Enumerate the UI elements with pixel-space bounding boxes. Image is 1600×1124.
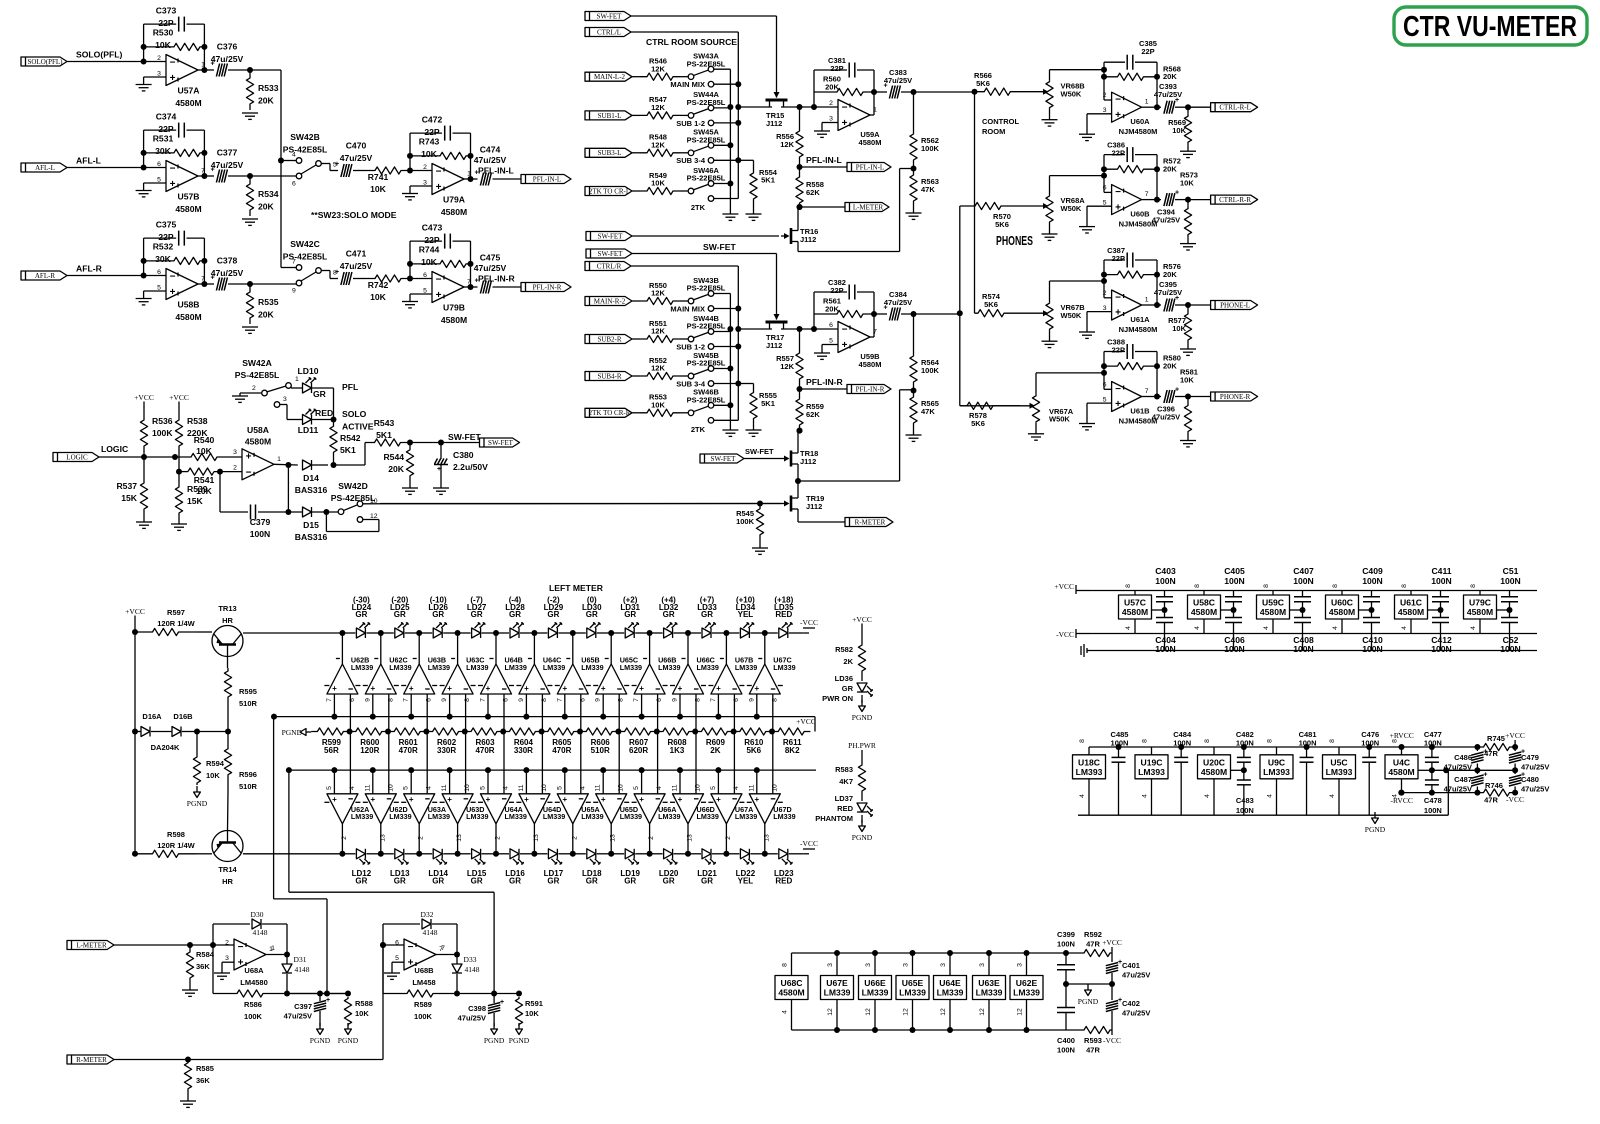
svg-text:6: 6	[1103, 185, 1107, 192]
svg-text:20K: 20K	[1163, 165, 1177, 174]
resistor R746	[1477, 781, 1515, 805]
svg-text:+: +	[370, 684, 375, 693]
PGND	[852, 820, 873, 842]
ground	[1180, 244, 1196, 250]
svg-text:U65E: U65E	[902, 978, 924, 988]
resistor R593	[1082, 1026, 1112, 1054]
svg-text:6: 6	[656, 698, 663, 702]
svg-text:RED: RED	[837, 804, 853, 813]
svg-text:SOLO(PFL): SOLO(PFL)	[76, 50, 122, 60]
resistor R585	[184, 1060, 214, 1102]
svg-text:R-METER: R-METER	[855, 518, 886, 526]
power -RVCC	[1391, 796, 1413, 805]
svg-text:LM339: LM339	[1013, 988, 1040, 998]
power +VCC	[1102, 938, 1122, 953]
svg-text:4580M: 4580M	[245, 437, 271, 447]
comparator U66C	[670, 633, 719, 793]
svg-text:+RVCC: +RVCC	[1390, 731, 1414, 740]
svg-text:C472: C472	[422, 115, 443, 125]
svg-text:SW-FET: SW-FET	[597, 12, 623, 20]
svg-text:GR: GR	[394, 876, 406, 885]
svg-text:PFL-IN-R: PFL-IN-R	[806, 377, 844, 387]
switch SW42C	[281, 239, 327, 295]
LED LD23	[762, 849, 803, 886]
svg-text:8: 8	[541, 698, 548, 702]
resistor R533	[246, 72, 278, 110]
svg-text:9: 9	[441, 698, 448, 702]
svg-text:−: −	[1115, 293, 1121, 304]
svg-text:U61B: U61B	[1130, 407, 1150, 416]
svg-text:3: 3	[1017, 963, 1024, 967]
svg-text:PGND: PGND	[852, 713, 873, 722]
resistor R563	[910, 163, 939, 213]
svg-text:C399: C399	[1057, 930, 1075, 939]
svg-text:PGND: PGND	[1078, 997, 1099, 1006]
svg-text:GR: GR	[701, 610, 713, 619]
svg-text:2: 2	[725, 836, 732, 840]
svg-text:+: +	[238, 957, 244, 968]
+VCC	[134, 393, 154, 408]
svg-text:2TK: 2TK	[691, 203, 706, 212]
svg-text:U67E: U67E	[826, 978, 848, 988]
svg-text:R538: R538	[187, 416, 208, 426]
resistor R595	[224, 668, 257, 708]
svg-text:10K: 10K	[196, 486, 213, 496]
svg-text:PHONE-L: PHONE-L	[1220, 301, 1250, 309]
tag SW-FET	[448, 432, 520, 447]
svg-text:3: 3	[233, 449, 237, 456]
svg-text:R591: R591	[525, 999, 543, 1008]
svg-text:R540: R540	[194, 435, 215, 445]
output wire	[870, 92, 887, 115]
svg-text:SW-FET: SW-FET	[745, 447, 774, 456]
svg-text:+: +	[246, 452, 252, 463]
ground	[242, 219, 258, 225]
svg-text:10K: 10K	[651, 179, 665, 188]
electrolytic C479	[1509, 747, 1549, 773]
svg-text:100N: 100N	[250, 529, 271, 539]
svg-text:13: 13	[379, 834, 386, 842]
svg-text:10K: 10K	[155, 40, 172, 50]
svg-text:GR: GR	[547, 876, 559, 885]
svg-text:4580M: 4580M	[1329, 607, 1355, 617]
svg-text:LD36: LD36	[835, 674, 853, 683]
LED LD26	[416, 596, 457, 639]
svg-text:−: −	[246, 467, 252, 478]
svg-text:4580M: 4580M	[778, 988, 804, 998]
svg-text:+VCC: +VCC	[1505, 731, 1525, 740]
svg-text:8: 8	[695, 698, 702, 702]
svg-text:2: 2	[1103, 92, 1107, 99]
title box CTR VU-METER	[1394, 7, 1587, 45]
resistor R609	[695, 728, 736, 755]
comparator U66D	[670, 767, 719, 854]
wire	[410, 440, 480, 446]
resistor R580	[1101, 354, 1181, 371]
svg-text:+: +	[842, 340, 848, 351]
svg-text:10: 10	[541, 784, 548, 792]
ground	[180, 1101, 196, 1107]
wire input	[380, 942, 404, 948]
svg-text:100N: 100N	[1155, 644, 1176, 654]
wire	[781, 326, 838, 332]
potentiometer VR67B	[1020, 281, 1085, 341]
op-amp + input wire	[1087, 114, 1112, 134]
LED LD32	[647, 596, 688, 639]
capacitor C482	[1236, 730, 1254, 773]
svg-text:+: +	[1175, 190, 1179, 197]
svg-text:3: 3	[423, 179, 427, 186]
tag LOGIC	[53, 444, 188, 462]
svg-text:+: +	[1483, 749, 1487, 756]
svg-text:U5C: U5C	[1330, 757, 1347, 767]
capacitor C407	[1290, 566, 1314, 617]
svg-text:C376: C376	[217, 42, 238, 52]
svg-text:−: −	[1115, 187, 1121, 198]
ground	[746, 430, 762, 436]
resistor R607	[618, 728, 659, 755]
label C396	[1152, 405, 1180, 422]
svg-text:PS-42E85L: PS-42E85L	[235, 370, 279, 380]
resistor R606	[580, 728, 621, 755]
transistor TR17	[738, 262, 787, 350]
svg-text:100N: 100N	[1155, 576, 1176, 586]
svg-text:12: 12	[865, 1008, 872, 1016]
svg-text:+: +	[754, 795, 759, 804]
LED LD34	[723, 596, 764, 639]
resistor R548	[640, 133, 680, 157]
svg-text:C470: C470	[346, 141, 367, 151]
svg-text:PGND: PGND	[484, 1036, 505, 1045]
-VCC tag	[800, 839, 818, 854]
capacitor C473	[410, 223, 471, 249]
svg-text:10K: 10K	[355, 1009, 369, 1018]
svg-text:10K: 10K	[651, 400, 665, 409]
svg-text:R585: R585	[196, 1064, 214, 1073]
svg-text:PGND: PGND	[187, 799, 208, 808]
svg-text:R530: R530	[153, 28, 174, 38]
svg-text:12K: 12K	[651, 64, 665, 73]
comparator U62D	[363, 767, 412, 854]
svg-text:+VCC: +VCC	[852, 615, 872, 624]
svg-text:100K: 100K	[921, 366, 940, 375]
svg-text:J112: J112	[766, 341, 782, 350]
feedback wires	[141, 238, 208, 284]
wire row2 top rail	[1089, 746, 1477, 748]
svg-text:4: 4	[503, 786, 510, 790]
svg-text:8: 8	[1401, 584, 1408, 588]
op-amp U61A	[1103, 290, 1158, 334]
resistor R745	[1474, 734, 1518, 758]
resistor R605	[542, 728, 583, 755]
svg-text:+: +	[370, 795, 375, 804]
node MAIN MIX	[670, 80, 705, 89]
svg-text:9: 9	[364, 698, 371, 702]
svg-text:PGND: PGND	[282, 728, 303, 737]
svg-text:12: 12	[827, 1008, 834, 1016]
node SUB 3-4	[676, 156, 706, 165]
svg-text:C403: C403	[1155, 566, 1176, 576]
electrolytic C470	[321, 141, 373, 178]
svg-text:C411: C411	[1431, 566, 1451, 576]
capacitor C484	[1173, 730, 1192, 815]
PGND	[187, 786, 208, 808]
electrolytic C384	[883, 290, 959, 321]
comparator U65A	[555, 767, 604, 854]
switch SW42D	[323, 481, 379, 532]
op-amp + input wire	[222, 962, 234, 973]
svg-text:−: −	[436, 274, 442, 285]
svg-text:6: 6	[157, 269, 161, 276]
svg-text:30K: 30K	[155, 146, 172, 156]
svg-text:R583: R583	[835, 765, 853, 774]
svg-text:7: 7	[326, 698, 333, 702]
svg-text:CTRL-R-L: CTRL-R-L	[1219, 104, 1251, 112]
comparator U67B	[708, 633, 757, 793]
svg-text:8: 8	[1125, 584, 1132, 588]
svg-text:4: 4	[292, 152, 296, 159]
svg-text:SW-FET: SW-FET	[703, 242, 737, 252]
svg-text:20K: 20K	[1163, 72, 1177, 81]
IC U68C	[775, 953, 808, 1030]
svg-text:LM393: LM393	[1076, 767, 1103, 777]
svg-text:R596: R596	[239, 770, 257, 779]
resistor R584	[186, 945, 214, 990]
svg-text:100N: 100N	[1224, 576, 1245, 586]
LED LD27	[455, 596, 496, 639]
svg-text:36K: 36K	[196, 1076, 210, 1085]
svg-text:R542: R542	[340, 433, 361, 443]
electrolytic C475	[464, 253, 521, 294]
svg-text:13: 13	[763, 834, 770, 842]
svg-text:10K: 10K	[1180, 178, 1194, 187]
svg-text:47u/25V: 47u/25V	[884, 298, 912, 307]
svg-text:D16B: D16B	[173, 712, 193, 721]
node	[194, 729, 228, 735]
electrolytic C474	[464, 145, 521, 186]
svg-text:LM339: LM339	[389, 663, 411, 672]
tag CTRL/R	[585, 262, 738, 271]
svg-text:+VCC: +VCC	[134, 393, 154, 402]
switch SW43A	[680, 52, 738, 87]
svg-text:11: 11	[364, 784, 371, 791]
wire pot to feedback	[1050, 278, 1108, 284]
svg-text:LM339: LM339	[581, 663, 603, 672]
resistor R597	[132, 608, 196, 636]
svg-text:U58A: U58A	[247, 425, 269, 435]
svg-text:8: 8	[1470, 584, 1477, 588]
svg-text:4148: 4148	[465, 965, 480, 974]
svg-text:U61C: U61C	[1400, 598, 1422, 608]
wire	[287, 993, 348, 995]
tag PHONE-R	[1188, 392, 1258, 401]
capacitor C388	[1104, 338, 1157, 360]
resistor R539	[175, 484, 207, 524]
svg-text:3: 3	[829, 115, 833, 122]
svg-text:+: +	[1115, 399, 1121, 410]
svg-text:J112: J112	[800, 235, 816, 244]
capacitor C386	[1104, 141, 1157, 163]
resistor R565	[910, 385, 939, 435]
resistor R564	[910, 314, 940, 385]
ground	[1042, 234, 1058, 240]
svg-text:+: +	[1115, 202, 1121, 213]
capacitor C381	[814, 56, 874, 78]
resistor R566	[974, 71, 1020, 95]
svg-text:620R: 620R	[629, 746, 648, 755]
svg-text:8: 8	[464, 698, 471, 702]
svg-text:PFL-IN-R: PFL-IN-R	[856, 385, 885, 393]
svg-text:10: 10	[618, 784, 625, 792]
svg-text:2: 2	[341, 836, 348, 840]
svg-text:13: 13	[456, 834, 463, 842]
svg-text:-VCC: -VCC	[1506, 795, 1524, 804]
svg-text:4: 4	[426, 786, 433, 790]
svg-text:BAS316: BAS316	[295, 485, 328, 495]
svg-text:4580M: 4580M	[1201, 767, 1227, 777]
svg-text:10K: 10K	[525, 1009, 539, 1018]
wire	[227, 657, 230, 669]
resistor R536	[140, 408, 173, 448]
svg-text:+VCC: +VCC	[169, 393, 189, 402]
ground	[136, 191, 152, 197]
svg-text:C374: C374	[156, 112, 177, 122]
svg-text:47u/25V: 47u/25V	[1444, 785, 1472, 794]
svg-text:C487: C487	[1454, 775, 1472, 784]
svg-text:5K6: 5K6	[971, 419, 985, 428]
potentiometer VR68A	[1020, 176, 1085, 234]
-VCC tag	[800, 618, 818, 633]
svg-text:R597: R597	[167, 608, 185, 617]
capacitor C403	[1152, 566, 1176, 617]
svg-text:9: 9	[292, 288, 296, 295]
wire input	[210, 942, 234, 948]
svg-text:LM339: LM339	[824, 988, 851, 998]
output tag PFL-IN-R	[478, 274, 571, 292]
label R581	[1180, 368, 1198, 385]
resistor R560	[814, 75, 877, 96]
capacitor C382	[814, 278, 874, 300]
svg-text:+: +	[524, 684, 529, 693]
feedback wires	[814, 292, 874, 337]
svg-text:R595: R595	[239, 687, 257, 696]
svg-text:GR: GR	[701, 876, 713, 885]
svg-text:7: 7	[1145, 191, 1149, 198]
svg-text:8: 8	[1204, 739, 1211, 743]
input tag SUB1-L	[585, 111, 640, 120]
resistor R547	[640, 95, 680, 119]
svg-text:100N: 100N	[1361, 739, 1379, 748]
wire top LED rail	[243, 632, 342, 634]
svg-text:LM393: LM393	[1263, 767, 1290, 777]
resistor R557	[776, 329, 803, 381]
comparator U62A	[324, 767, 373, 854]
svg-text:4: 4	[1329, 794, 1336, 798]
svg-text:C375: C375	[156, 220, 177, 230]
resistor R741	[366, 167, 410, 194]
svg-text:PH.PWR: PH.PWR	[848, 741, 876, 750]
svg-text:RED: RED	[315, 408, 333, 418]
title CTRL ROOM SOURCE	[646, 37, 737, 47]
LED LD31	[608, 596, 649, 639]
svg-text:C400: C400	[1057, 1036, 1075, 1045]
svg-text:8: 8	[1194, 584, 1201, 588]
svg-text:HR: HR	[222, 616, 233, 625]
svg-text:R-METER: R-METER	[76, 1056, 107, 1064]
resistor R610	[734, 728, 775, 755]
electrolytic C396	[1142, 387, 1191, 404]
svg-text:100N: 100N	[1057, 940, 1075, 949]
LED LD35	[762, 596, 803, 639]
electrolytic C401	[1106, 953, 1151, 984]
svg-text:10K: 10K	[206, 771, 220, 780]
resistor R743	[410, 137, 471, 160]
resistor R549	[640, 171, 680, 195]
switch SW43B	[680, 276, 738, 312]
svg-text:22P: 22P	[1112, 148, 1125, 157]
comparator U65D	[593, 767, 642, 854]
svg-text:−: −	[170, 57, 176, 68]
svg-text:120R 1/4W: 120R 1/4W	[157, 619, 195, 628]
svg-text:4580M: 4580M	[175, 312, 201, 322]
svg-text:LM458: LM458	[412, 978, 435, 987]
PGND	[338, 1023, 359, 1045]
IC U9C	[1260, 739, 1293, 815]
svg-text:8: 8	[1329, 739, 1336, 743]
LED LD28	[493, 596, 534, 639]
resistor R581	[1184, 397, 1191, 441]
capacitor C51	[1497, 566, 1521, 617]
svg-text:U60C: U60C	[1331, 598, 1353, 608]
capacitor C405	[1221, 566, 1245, 617]
LED LD11 RED	[287, 408, 337, 435]
svg-text:C51: C51	[1503, 566, 1519, 576]
resistor R598	[132, 632, 196, 857]
svg-text:3: 3	[827, 963, 834, 967]
svg-text:D31: D31	[294, 955, 307, 964]
svg-text:3: 3	[1103, 107, 1107, 114]
PGND arrow	[282, 728, 312, 737]
LED LD13	[378, 849, 419, 886]
wire R-METER riser	[380, 942, 386, 948]
svg-text:+: +	[408, 957, 414, 968]
resistor R542	[330, 420, 361, 466]
svg-text:47u/25V: 47u/25V	[1154, 288, 1182, 297]
svg-text:2: 2	[157, 55, 161, 62]
op-amp U58A	[233, 425, 281, 480]
resistor R589	[383, 990, 457, 1021]
svg-text:PS-22E85L: PS-22E85L	[687, 98, 726, 107]
IC U58C	[1188, 584, 1221, 634]
op-amp + input wire	[1087, 206, 1112, 226]
PGND	[852, 700, 873, 722]
svg-text:6: 6	[426, 698, 433, 702]
svg-text:GR: GR	[432, 876, 444, 885]
svg-text:+: +	[678, 795, 683, 804]
resistor R562	[910, 92, 940, 163]
svg-text:6: 6	[579, 698, 586, 702]
svg-text:56R: 56R	[324, 746, 339, 755]
LED LD15	[455, 849, 496, 886]
LED LD14	[416, 849, 457, 886]
svg-text:GR: GR	[663, 876, 675, 885]
svg-text:10K: 10K	[1180, 375, 1194, 384]
svg-text:TR13: TR13	[218, 604, 236, 613]
LED LD30	[570, 596, 611, 639]
resistor R569	[1184, 107, 1191, 151]
resistor R599	[311, 728, 352, 755]
svg-text:U58C: U58C	[1193, 598, 1215, 608]
